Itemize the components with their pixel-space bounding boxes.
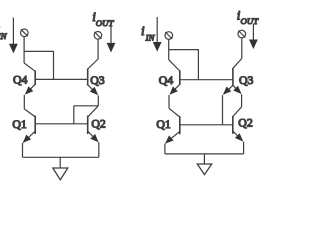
svg-text:Q4: Q4 [13, 72, 28, 86]
svg-text:Q1: Q1 [156, 117, 171, 131]
svg-text:IN: IN [0, 31, 8, 41]
svg-text:Q4: Q4 [159, 73, 174, 87]
svg-text:i: i [141, 23, 145, 38]
svg-text:Q2: Q2 [91, 116, 106, 130]
svg-text:OUT: OUT [241, 16, 260, 26]
svg-text:Q3: Q3 [90, 73, 105, 87]
svg-text:Q2: Q2 [238, 116, 253, 130]
svg-text:IN: IN [145, 32, 156, 42]
svg-text:Q1: Q1 [12, 117, 27, 131]
svg-text:Q3: Q3 [239, 73, 254, 87]
svg-text:OUT: OUT [96, 18, 115, 28]
